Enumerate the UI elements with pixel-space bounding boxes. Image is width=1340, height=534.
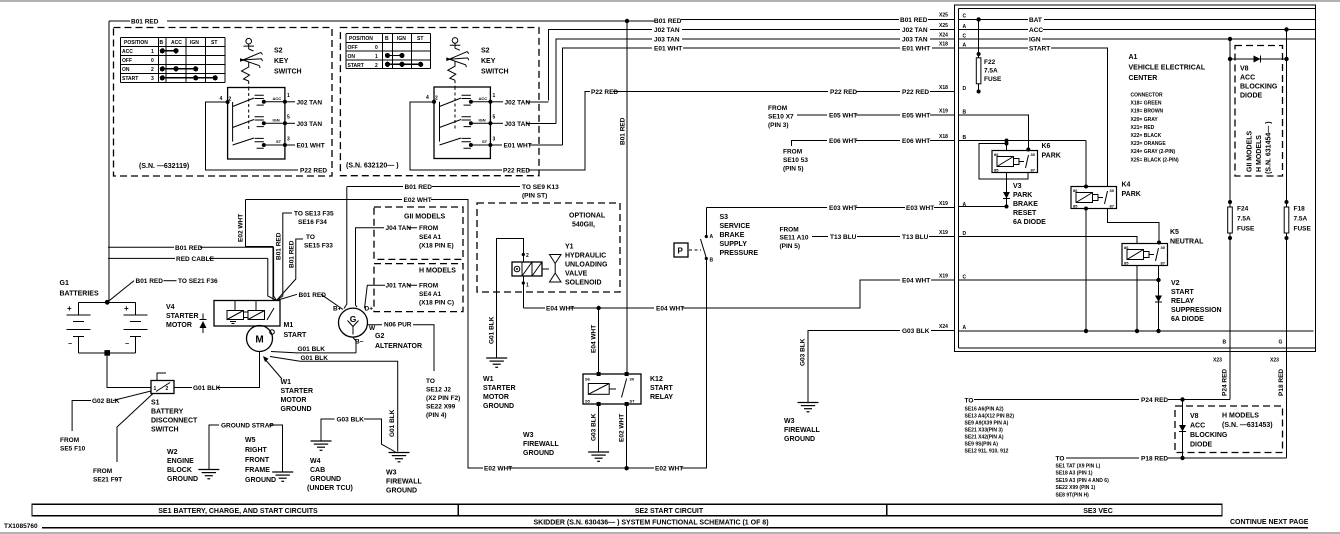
key switch 2 contact box [426,87,496,159]
wire B01 RED vertical feed from top bus down to K12 relay pin 30 [620,21,628,374]
svg-text:START: START [1171,289,1195,296]
svg-text:B+: B+ [333,306,342,313]
svg-text:V4: V4 [166,304,175,311]
wire J02 TAN from switch 2 pin 1 up to top line [490,99,548,106]
wire P18 RED distribution [1056,456,1287,463]
svg-text:3: 3 [287,136,290,142]
svg-text:SE4 A1: SE4 A1 [419,291,442,298]
svg-text:TO SE21 F36: TO SE21 F36 [178,278,218,285]
svg-text:(S.N. —631453): (S.N. —631453) [1222,422,1273,429]
svg-text:SWITCH: SWITCH [481,69,509,76]
net ACC inside VEC [959,27,1316,34]
svg-text:B01 RED: B01 RED [620,117,627,145]
svg-text:E03 WHT: E03 WHT [906,205,934,212]
svg-text:30: 30 [630,377,635,382]
starter motor V4 solenoid [214,301,280,335]
svg-text:W: W [369,325,376,332]
A1 connector color legend [1131,93,1180,164]
svg-text:GROUND: GROUND [281,406,312,413]
svg-text:G01 BLK: G01 BLK [489,316,496,344]
svg-text:G01 BLK: G01 BLK [389,409,396,437]
svg-text:SE22 X99: SE22 X99 [426,404,456,411]
svg-text:SE19 A3 (PIN 4 AND 6): SE19 A3 (PIN 4 AND 6) [1056,478,1110,484]
svg-text:B: B [385,36,389,42]
svg-text:B01 RED: B01 RED [654,18,682,25]
svg-text:ST: ST [482,139,488,144]
wire J01 TAN from alternator D+ to H models [365,283,418,309]
fuse F22 7.5A [976,20,1002,94]
svg-text:CENTER: CENTER [1129,75,1158,82]
svg-text:86: 86 [1073,188,1078,193]
svg-text:G03 BLK: G03 BLK [800,338,807,366]
wire J02 TAN top line to VEC [549,27,955,100]
svg-text:KEY: KEY [274,58,289,65]
fuse F18 7.5A [1284,206,1311,234]
P24 RED destination list [965,407,1015,455]
wire T13 BLU inside VEC to K5 coil [959,237,1138,244]
svg-text:X23= ORANGE: X23= ORANGE [1131,141,1167,147]
ACC blocking diode V8 (GII models) dashed box [1235,46,1283,177]
svg-text:S1: S1 [151,400,160,407]
svg-text:B: B [160,40,164,46]
svg-text:X18: X18 [939,134,948,140]
VEC pin X25 A [939,23,967,30]
svg-text:PARK: PARK [1013,192,1032,199]
H models dashed box [374,264,463,312]
park relay K4 [1071,187,1117,211]
svg-text:BATTERY: BATTERY [151,409,184,416]
svg-text:(PIN 5): (PIN 5) [783,166,804,173]
svg-text:P22 RED: P22 RED [591,89,618,96]
wire E05 WHT from SE10 X7 to VEC [768,105,955,129]
wire B01 RED starter to alternator B+ [277,292,344,310]
svg-text:RESET: RESET [1013,210,1037,217]
svg-text:F24: F24 [1237,206,1249,213]
svg-text:TO SE13 F35: TO SE13 F35 [294,211,334,218]
svg-text:0: 0 [151,58,154,64]
S3 label [720,214,759,257]
wire B01 RED vertical to alternator B+ from stub line [344,187,347,309]
svg-text:SERVICE: SERVICE [720,223,751,230]
VEC pin X24 C [939,33,967,40]
svg-text:GROUND STRAP: GROUND STRAP [221,423,274,430]
ground W2 engine block [167,449,219,483]
svg-text:ACC: ACC [1029,27,1043,34]
svg-text:FROM: FROM [780,227,799,234]
svg-text:E01 WHT: E01 WHT [902,46,930,53]
svg-text:OFF: OFF [348,45,358,51]
svg-text:1: 1 [287,93,290,99]
svg-text:SE22 X99 (PIN 1): SE22 X99 (PIN 1) [1056,485,1096,491]
diode V8 GII symbol between IGN and ACC drops [1228,56,1289,63]
S2 KEY SWITCH label (switch 1) [274,48,302,76]
svg-text:3: 3 [493,136,496,142]
svg-text:ACC: ACC [171,40,182,46]
svg-text:X25: X25 [939,23,948,29]
svg-text:BLOCKING: BLOCKING [1240,84,1278,91]
wire E04 WHT from Y1 pin 1 to VEC [523,276,954,313]
svg-text:(X2 PIN F2): (X2 PIN F2) [426,395,460,402]
wire B01 RED riser to TO SE15 F33 [277,234,334,301]
wire P22 RED stub from switch 1 pin 2 [206,102,328,174]
ground W1 starter motor [483,358,516,410]
VEC pin X19 A [939,201,967,208]
wire B01 RED top bus from key switch area to VEC [109,17,955,302]
wire B01 RED tap to starter stud [108,245,277,301]
svg-text:P22 RED: P22 RED [300,167,327,174]
svg-text:X23: X23 [1213,358,1222,364]
VEC pin X19 C [939,274,967,281]
svg-text:F22: F22 [984,59,996,66]
svg-text:K6: K6 [1042,143,1051,150]
wire E01 WHT from switch 2 pin 3 up to top line [490,143,562,150]
svg-text:1: 1 [375,54,378,60]
wire J02 TAN stub from switch 1 pin 1 [285,99,322,106]
svg-text:E01 WHT: E01 WHT [654,46,682,53]
svg-text:G2: G2 [375,333,384,340]
svg-text:C: C [963,14,967,20]
svg-text:SE1 TAT (X9 PIN L): SE1 TAT (X9 PIN L) [1056,464,1101,470]
svg-text:GROUND: GROUND [245,477,276,484]
ground W4 cab [307,441,353,492]
diode V8 H models symbol [1179,400,1186,461]
wire E06 WHT from SE10 53 to VEC [783,138,955,173]
svg-text:A: A [710,234,714,240]
svg-text:DIODE: DIODE [1240,93,1263,100]
wire G03 BLK ground bus inside VEC [959,330,1314,332]
svg-text:4: 4 [426,95,429,101]
K5 label [1170,229,1204,246]
svg-text:B01 RED: B01 RED [405,184,433,191]
svg-text:G01 BLK: G01 BLK [193,385,221,392]
ground W3 firewall (K12) [523,432,609,461]
S1 label [151,400,198,434]
svg-text:6A DIODE: 6A DIODE [1013,219,1046,226]
svg-text:FROM: FROM [93,468,112,475]
svg-text:J02 TAN: J02 TAN [654,27,680,34]
continue next page note [1230,519,1309,526]
svg-text:IGN: IGN [190,40,199,46]
svg-text:E02 WHT: E02 WHT [619,414,626,442]
svg-text:IGN: IGN [479,118,486,123]
svg-text:STARTER: STARTER [281,388,314,395]
section SE2 label [635,508,704,515]
svg-text:IGN: IGN [397,36,406,42]
svg-text:W1: W1 [281,379,292,386]
ground W3 firewall (left) [386,453,422,495]
svg-text:A: A [963,202,967,208]
svg-text:SE13 A4(X12 PIN B2): SE13 A4(X12 PIN B2) [965,414,1015,420]
wire N06 PUR from alternator W [368,322,461,420]
svg-text:GROUND: GROUND [523,450,554,457]
svg-text:B01 RED: B01 RED [131,19,159,26]
S3 actuator P box [674,243,701,257]
svg-text:SE10 X7: SE10 X7 [768,114,794,121]
svg-text:BRAKE: BRAKE [720,232,745,239]
svg-text:SE1 BATTERY, CHARGE, AND START: SE1 BATTERY, CHARGE, AND START CIRCUITS [158,508,318,515]
K6 feedback loop wire [979,142,1028,180]
svg-text:1: 1 [526,283,529,289]
svg-text:7.5A: 7.5A [984,68,998,75]
svg-text:IGN: IGN [1029,37,1041,44]
svg-text:+: + [67,304,72,313]
svg-text:ENGINE: ENGINE [167,458,194,465]
svg-text:E06 WHT: E06 WHT [829,138,857,145]
svg-text:J02 TAN: J02 TAN [505,99,531,106]
svg-text:UNLOADING: UNLOADING [565,262,608,269]
svg-text:M: M [255,335,263,346]
svg-text:DISCONNECT: DISCONNECT [151,418,198,425]
svg-text:W3: W3 [784,418,795,425]
wire T13 BLU from SE11 A10 to VEC [780,227,955,251]
wire B01 RED riser to TO SE13 F35 / SE16 F34 [276,211,335,301]
svg-text:(S.N. —632119): (S.N. —632119) [139,163,189,170]
svg-text:6A DIODE: 6A DIODE [1171,316,1204,323]
svg-text:W1: W1 [483,376,494,383]
key switch 2 position truth table [346,33,431,69]
svg-text:T13 BLU: T13 BLU [830,234,857,241]
neutral relay K5 [1122,244,1168,266]
svg-text:87: 87 [1110,204,1115,209]
svg-text:E02 WHT: E02 WHT [655,466,683,473]
svg-text:STARTER: STARTER [166,313,199,320]
wire E02 WHT from starter solenoid to lower run [238,197,707,473]
svg-text:X21= RED: X21= RED [1131,125,1155,131]
key switch 1 rotary symbol [240,38,263,87]
wire B01 RED battery positive riser [107,278,218,302]
svg-text:MOTOR: MOTOR [281,397,307,404]
svg-text:J01 TAN: J01 TAN [386,283,412,290]
svg-text:−: − [125,341,129,348]
svg-text:ON: ON [122,67,130,73]
svg-text:X18: X18 [939,42,948,48]
svg-text:DIODE: DIODE [1190,442,1213,449]
svg-text:SE18 A3 (PIN 1): SE18 A3 (PIN 1) [1056,471,1093,477]
svg-text:GROUND: GROUND [310,476,341,483]
svg-text:BLOCKING: BLOCKING [1190,432,1228,439]
svg-text:SE11 A10: SE11 A10 [780,235,809,242]
svg-text:PARK: PARK [1042,153,1061,160]
svg-text:SWITCH: SWITCH [274,69,302,76]
svg-text:M1: M1 [284,322,294,329]
wire K4 coil return to ground bus [1084,209,1088,334]
svg-text:J03 TAN: J03 TAN [654,37,680,44]
svg-text:START: START [284,332,308,339]
svg-text:3: 3 [151,76,154,82]
svg-text:START: START [1029,46,1050,53]
svg-text:E04 WHT: E04 WHT [591,325,598,353]
svg-text:Y1: Y1 [565,244,574,251]
top page border [0,0,1340,2]
svg-text:4: 4 [220,96,223,102]
svg-text:K4: K4 [1122,182,1131,189]
wire E06 WHT inside VEC to K6 and K4 coils [959,139,1089,189]
svg-text:SOLENOID: SOLENOID [565,280,602,287]
net START inside VEC to K4 contact [959,46,1108,187]
svg-text:B01 RED: B01 RED [175,245,203,252]
vehicle electrical center A1 box [955,5,1316,352]
svg-text:X24: X24 [939,33,948,39]
V2 label [1171,280,1222,323]
svg-text:SE15 F33: SE15 F33 [304,243,333,250]
svg-text:W4: W4 [310,458,321,465]
svg-text:SE5 F10: SE5 F10 [60,446,86,453]
svg-text:TO: TO [965,398,974,405]
svg-text:85: 85 [994,168,999,173]
svg-text:V2: V2 [1171,280,1180,287]
svg-text:X19= BROWN: X19= BROWN [1131,109,1164,115]
wire P24 RED distribution [965,397,1231,405]
svg-text:J03 TAN: J03 TAN [297,121,323,128]
wire J03 TAN top line to VEC [556,37,955,124]
svg-text:P18 RED: P18 RED [1141,456,1168,463]
ground strap between W2 and W5 grounds [209,423,283,473]
svg-text:SE12 J2: SE12 J2 [426,387,451,394]
park relay K6 [992,151,1038,173]
svg-text:G01 BLK: G01 BLK [298,346,326,353]
diode at starter solenoid [200,314,207,334]
svg-text:B01 RED: B01 RED [136,278,164,285]
svg-text:G02 BLK: G02 BLK [92,398,120,405]
svg-text:(S.N. 632120— ): (S.N. 632120— ) [346,163,399,170]
svg-text:G: G [1279,340,1283,346]
key switch 2 dashed enclosure (S.N. 632120-) [340,28,539,176]
svg-text:MOTOR: MOTOR [483,394,509,401]
svg-text:30: 30 [1110,188,1115,193]
svg-text:P22 RED: P22 RED [830,89,857,96]
svg-text:X19: X19 [939,109,948,115]
svg-text:RELAY: RELAY [650,394,673,401]
svg-text:B: B [1223,340,1227,346]
V4 label [166,304,199,329]
svg-text:ST: ST [211,40,217,46]
wire E01 WHT top line to VEC [563,46,955,146]
svg-text:TO: TO [426,378,435,385]
svg-text:FRAME: FRAME [245,467,270,474]
svg-text:7.5A: 7.5A [1294,216,1308,223]
svg-text:(UNDER TCU): (UNDER TCU) [307,485,353,492]
svg-text:TO SE9 K13: TO SE9 K13 [522,184,559,191]
wire P22 RED from switch 2 pin 2 to VEC [410,89,955,174]
svg-text:X25= BLACK (2-PIN): X25= BLACK (2-PIN) [1131,157,1180,163]
svg-text:86: 86 [1124,245,1129,250]
svg-text:FRONT: FRONT [245,457,270,464]
svg-text:(S.N. 631454— ): (S.N. 631454— ) [1266,121,1273,174]
svg-text:K5: K5 [1170,229,1179,236]
X23 pin G [1270,340,1283,364]
P18 RED destination list [1056,464,1110,499]
svg-text:G1: G1 [60,280,69,287]
svg-text:B01 RED: B01 RED [900,17,928,24]
key switch 1 dashed enclosure (S.N. -632119) [114,28,333,177]
bottom page border [0,532,1340,534]
svg-text:B01 RED: B01 RED [299,292,327,299]
svg-text:P24 RED: P24 RED [1141,397,1168,404]
svg-text:1: 1 [151,49,154,55]
svg-text:ST: ST [417,36,423,42]
svg-text:F18: F18 [1294,206,1306,213]
pressure switch S3 [701,208,714,264]
svg-text:W5: W5 [245,437,256,444]
start relay K12 [583,372,641,406]
svg-text:P24 RED: P24 RED [1222,369,1229,396]
svg-text:RIGHT: RIGHT [245,447,268,454]
svg-text:GII MODELS: GII MODELS [404,214,446,221]
svg-text:FUSE: FUSE [1294,226,1312,233]
svg-text:SE9 A9(X39 PIN A): SE9 A9(X39 PIN A) [965,421,1009,427]
svg-text:NEUTRAL: NEUTRAL [1170,239,1204,246]
svg-text:V8: V8 [1240,66,1249,73]
diode V2 start relay suppression [1155,266,1162,334]
wire G01 BLK from Y1 pin 2 to starter motor ground W1 [489,238,524,358]
battery disconnect switch S1 [151,373,174,394]
GII models dashed box [374,207,463,259]
svg-text:K12: K12 [650,376,663,383]
svg-text:SKIDDER (S.N. 630436— ) SYSTEM: SKIDDER (S.N. 630436— ) SYSTEM FUNCTIONA… [533,520,768,527]
svg-text:KEY: KEY [481,58,496,65]
svg-text:G03 BLK: G03 BLK [591,413,598,441]
svg-text:H MODELS: H MODELS [1256,135,1263,172]
svg-text:X18: X18 [939,85,948,91]
svg-text:CAB: CAB [310,467,325,474]
svg-text:P22 RED: P22 RED [902,89,929,96]
net BAT inside VEC [959,17,1316,24]
svg-text:W2: W2 [167,449,178,456]
svg-text:E02 WHT: E02 WHT [404,197,432,204]
svg-text:FROM: FROM [768,105,787,112]
alternator G2 [333,306,422,351]
X23 pin B [1213,340,1227,364]
svg-text:X25: X25 [939,13,948,19]
drawing number TX1085760 [4,523,38,530]
wire E05 WHT inside VEC to K6 contact [959,115,1031,152]
svg-text:SE21 X33(PIN 3): SE21 X33(PIN 3) [965,428,1004,434]
svg-text:FIREWALL: FIREWALL [523,441,559,448]
svg-text:FUSE: FUSE [984,76,1002,83]
svg-text:TX1085760: TX1085760 [4,523,38,530]
svg-text:0: 0 [375,45,378,51]
svg-text:VALVE: VALVE [565,271,588,278]
svg-text:(X18 PIN E): (X18 PIN E) [419,243,454,250]
wire K5 coil return to ground bus [1135,266,1139,334]
svg-text:B01 RED: B01 RED [276,232,283,260]
VEC pin X24 A [939,324,967,331]
svg-text:CONNECTOR: CONNECTOR [1131,93,1164,99]
svg-text:(PIN 4): (PIN 4) [426,412,447,419]
wire RED CABLE tap to starter stud [108,256,277,301]
svg-text:BRAKE: BRAKE [1013,201,1038,208]
svg-text:2: 2 [526,253,529,259]
svg-text:85: 85 [1073,204,1078,209]
svg-text:E05 WHT: E05 WHT [902,113,930,120]
wire G01 BLK from S1 to starter motor ground [174,352,259,392]
svg-text:D+: D+ [365,306,374,313]
svg-text:86: 86 [994,152,999,157]
VEC pin X18 A [939,42,967,49]
svg-text:G: G [350,314,357,324]
svg-text:2: 2 [166,386,169,392]
svg-text:OFF: OFF [122,58,132,64]
wire B01 RED stub to SE9 K13 [347,184,559,200]
svg-text:5: 5 [493,115,496,121]
svg-text:2: 2 [375,63,378,69]
svg-text:STARTER: STARTER [483,385,516,392]
wire E03 WHT inside VEC [959,206,1007,208]
svg-text:RED CABLE: RED CABLE [176,256,215,263]
svg-text:GROUND: GROUND [386,488,417,495]
svg-text:−: − [68,341,72,348]
wire J03 TAN stub from switch 1 pin 5 [285,121,322,128]
